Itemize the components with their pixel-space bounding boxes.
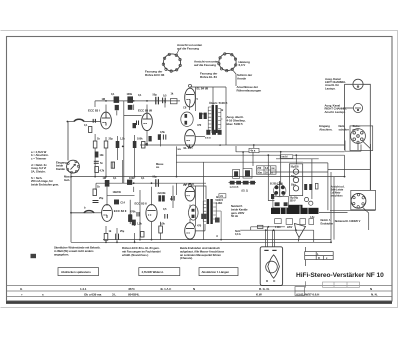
wire long vertical mid lower <box>203 162 205 239</box>
output tube V3 EL84 <box>185 84 196 107</box>
svg-text:4574: 4574 <box>128 287 135 291</box>
output tube V4 EL84 <box>185 130 196 148</box>
output connector J2 (right channel) <box>353 103 362 112</box>
svg-text:C14: C14 <box>120 201 125 204</box>
shielded blob lower <box>84 211 94 213</box>
label below socket B2 wire <box>237 85 262 92</box>
small caps mid lower <box>165 214 168 219</box>
svg-text:ws: ws <box>156 166 160 169</box>
wire mid rail y146 <box>140 144 345 146</box>
label box B text <box>257 167 274 174</box>
title block stamp box <box>323 282 360 287</box>
tube V1b ECC83 <box>102 205 113 222</box>
svg-text:0,5k: 0,5k <box>160 222 165 226</box>
svg-text:0,5: 0,5 <box>163 207 167 211</box>
label connector J2 <box>325 103 348 113</box>
label transformer T2 <box>216 199 224 205</box>
svg-text:N: N <box>193 287 195 291</box>
svg-text:LS: LS <box>220 195 223 198</box>
capacitor C1 on input wire <box>93 119 95 123</box>
resistor on supply wire <box>258 225 263 228</box>
resistor V2b left <box>129 215 132 221</box>
feedback labels <box>100 154 105 173</box>
svg-text:(Chassis).: (Chassis). <box>180 256 193 260</box>
resistor row R9b <box>142 142 146 149</box>
lower phase splitter oval <box>189 205 199 220</box>
label socket B2 below-left <box>200 72 218 79</box>
svg-text:Lautspr.: Lautspr. <box>325 86 336 90</box>
svg-text:6,3 V: 6,3 V <box>239 63 246 67</box>
svg-text:50µ/350: 50µ/350 <box>291 166 300 168</box>
tube V1 ECC83 <box>101 112 112 129</box>
LS label box lower <box>219 194 226 198</box>
capacitor lower rail <box>156 179 159 187</box>
output transformer T1 <box>208 105 222 133</box>
resistor R14 dark <box>199 113 202 119</box>
svg-text:Übertr. 5100:5: Übertr. 5100:5 <box>209 101 228 105</box>
tube socket view B2 (Röhrenfassung EL84) <box>218 53 237 72</box>
svg-text:G: G <box>20 287 23 291</box>
wire anode drop lower mid <box>133 187 135 192</box>
title block small rows <box>295 281 306 295</box>
svg-text:N. N.: N. N. <box>371 293 378 297</box>
svg-text:auf die Fassung: auf die Fassung <box>177 47 199 51</box>
junction dots upper <box>94 100 345 178</box>
label socket B2 below-right <box>237 73 253 80</box>
schematic frame <box>7 37 393 302</box>
svg-text:b: b <box>84 206 86 210</box>
capacitor under R8 <box>128 105 133 110</box>
part right of lower row <box>141 232 145 238</box>
wire socket D bottom <box>319 207 376 230</box>
svg-text:0,1: 0,1 <box>113 176 117 180</box>
label caps below <box>290 197 299 203</box>
svg-text:+: + <box>21 293 23 297</box>
wires resistor row to ground rail <box>95 131 176 177</box>
resistor R17 dark <box>212 130 216 135</box>
resistor lower rail 1 <box>105 180 110 187</box>
feedback chain capacitor <box>94 161 99 163</box>
svg-text:1k: 1k <box>109 229 112 233</box>
margin mark <box>31 254 37 258</box>
resistor row R5 <box>104 141 108 148</box>
wire input to V1b <box>71 174 102 213</box>
input socket with pins <box>67 160 80 173</box>
label under terminals <box>275 216 315 229</box>
label columns above DIN socket <box>319 124 360 131</box>
svg-text:100k: 100k <box>137 137 143 141</box>
label socket F <box>270 183 283 186</box>
svg-text:50m: 50m <box>257 171 262 174</box>
frame bottom thick bar <box>6 301 392 304</box>
svg-text:Anschl. Lautspr.: Anschl. Lautspr. <box>325 110 346 114</box>
wire lower output top <box>190 186 206 231</box>
svg-text:1M: 1M <box>102 97 105 101</box>
svg-text:1,2k: 1,2k <box>137 222 142 226</box>
wire input vertical <box>67 122 69 161</box>
small part mid <box>111 162 114 168</box>
phase splitter oval <box>181 112 193 126</box>
label box B table <box>257 166 277 174</box>
svg-text:Abschirm.: Abschirm. <box>319 127 332 131</box>
wire V2 anode <box>146 105 148 114</box>
small parts left column <box>304 183 318 205</box>
svg-text:ECC 83 II: ECC 83 II <box>135 202 147 206</box>
mains socket D <box>351 193 366 208</box>
title block row line 2 <box>7 290 393 292</box>
component value labels upper channel <box>97 92 224 152</box>
wire V4 to transformer <box>190 104 206 147</box>
coupling vertical lower <box>172 186 174 209</box>
svg-text:0,1: 0,1 <box>141 176 145 180</box>
svg-text:3 L: 3 L <box>112 293 116 297</box>
svg-text:954034L: 954034L <box>128 293 140 297</box>
svg-text:4,7k/1W Widerst.: 4,7k/1W Widerst. <box>142 270 164 274</box>
text Netzteil <box>231 204 248 218</box>
svg-text:2A, Gleichr.: 2A, Gleichr. <box>31 169 46 173</box>
wire rail left elbow <box>94 101 96 107</box>
output connector J1 (left channel) <box>353 79 363 89</box>
electrolytic cap bank box <box>289 164 302 196</box>
title block row texts <box>20 287 378 297</box>
output tube V3b EL84 <box>185 184 195 201</box>
wire V2b anode <box>151 187 153 206</box>
tube socket view B1 (Röhrenfassung ECC83) <box>162 53 181 72</box>
resistor R18 dark <box>218 130 222 135</box>
svg-text:1,2k: 1,2k <box>120 137 125 141</box>
capacitor above V1b <box>114 200 119 205</box>
svg-text:4L 1 A C: 4L 1 A C <box>160 287 172 291</box>
wire rail y151.8 <box>236 151 345 153</box>
svg-text:4-16Ω: 4-16Ω <box>216 202 223 205</box>
svg-text:50µ+: 50µ+ <box>291 176 297 178</box>
svg-text:c = Trimmer: c = Trimmer <box>31 156 47 160</box>
svg-text:ECC 83 II: ECC 83 II <box>114 209 127 213</box>
svg-text:beide Endstufen gem.: beide Endstufen gem. <box>31 182 59 186</box>
note text bottom left <box>54 246 101 257</box>
wires lower resistor rows <box>106 160 177 242</box>
wires supply verticals <box>236 146 296 201</box>
svg-text:4.543,4W37 6.6.H: 4.543,4W37 6.6.H <box>296 293 319 297</box>
capacitor lower grid <box>93 201 99 203</box>
svg-text:Kanäle: Kanäle <box>56 167 65 171</box>
svg-text:(Gl. 1): (Gl. 1) <box>242 189 249 192</box>
svg-text:Geh.: Geh. <box>64 178 70 182</box>
wire top rail <box>95 100 180 102</box>
wire lower top rail <box>96 182 206 184</box>
capacitor lower row <box>116 234 119 240</box>
svg-text:ECC 83 I: ECC 83 I <box>88 109 100 113</box>
svg-text:1k: 1k <box>171 92 174 96</box>
wires DIN to box <box>331 141 371 243</box>
shielded input wire blob <box>67 119 101 122</box>
svg-text:a a: a a <box>202 113 206 116</box>
caps in lower oval <box>192 209 195 212</box>
resistor R10 on rail <box>170 99 177 104</box>
text block socket D <box>331 185 345 198</box>
svg-text:10k: 10k <box>100 154 105 157</box>
resistor R8 on rail <box>127 96 133 103</box>
svg-text:1 2 3 4 5: 1 2 3 4 5 <box>230 186 239 189</box>
terminal sub boxes <box>275 219 314 225</box>
svg-text:0,5: 0,5 <box>163 94 167 98</box>
svg-text:50µ+: 50µ+ <box>291 184 297 186</box>
label under rectifier row <box>230 186 249 192</box>
resistor lower row 3 <box>159 226 163 233</box>
coupling cap C6 <box>163 98 166 104</box>
svg-text:25µ: 25µ <box>99 196 104 200</box>
svg-text:erhältl. (Noval-Fass.): erhältl. (Noval-Fass.) <box>122 253 148 257</box>
svg-text:350 V: 350 V <box>290 200 296 203</box>
rectifier unit dark blocks <box>233 169 252 179</box>
text right of bar <box>321 218 334 225</box>
tube V2b ECC83 <box>146 205 157 222</box>
svg-text:250: 250 <box>257 167 262 170</box>
label left of speaker wires <box>235 230 241 236</box>
svg-text:0,1: 0,1 <box>138 93 142 97</box>
cathode cap V2 <box>163 135 165 140</box>
label connector J1 <box>325 77 346 91</box>
svg-text:anschluss: anschluss <box>331 194 344 198</box>
capacitor C7 in oval <box>185 114 188 118</box>
title block row line 3 <box>7 295 393 297</box>
svg-text:ws: ws <box>178 148 182 151</box>
svg-text:5: 5 <box>197 97 199 101</box>
leader line from socket B1 to label <box>177 50 180 55</box>
wire supply horizontals <box>240 227 314 243</box>
note block 1 <box>122 246 161 257</box>
wire anode drop V1b <box>106 187 108 206</box>
svg-text:rt: rt <box>219 143 221 147</box>
svg-text:R: R <box>318 257 320 260</box>
resistor lower row 1 <box>104 233 108 240</box>
svg-text:2x100k: 2x100k <box>158 192 167 195</box>
resistor lower rail 2 <box>127 180 132 185</box>
capacitor V2b <box>137 212 139 217</box>
rectifier terminal row <box>229 181 257 185</box>
note block 2 <box>180 246 224 260</box>
resistor under V2 <box>149 136 152 141</box>
svg-text:0,3 A: 0,3 A <box>235 233 241 236</box>
label input socket right <box>56 160 67 170</box>
capacitor C5 on rail <box>156 97 159 105</box>
feedback chain resistor 2 <box>95 167 99 173</box>
wire V2b left rail <box>107 195 135 197</box>
svg-text:1k: 1k <box>97 137 100 141</box>
output transformer T2 <box>203 199 221 240</box>
spec table marks <box>317 253 328 260</box>
bottom box 1 <box>58 268 99 276</box>
svg-text:Röhre ECC 83: Röhre ECC 83 <box>145 73 165 77</box>
resistor R16 dark <box>206 130 210 135</box>
svg-text:5n: 5n <box>100 162 103 165</box>
loudspeaker <box>260 247 282 286</box>
feedback chain resistor <box>95 152 99 158</box>
svg-text:470: 470 <box>197 123 202 127</box>
label box on rail 2 <box>280 155 293 159</box>
pilot lamp funnel <box>295 224 306 242</box>
wire rail left elbow lower <box>95 183 97 190</box>
tube V2 ECC83 <box>142 113 153 130</box>
svg-text:ECC 83 I/II: ECC 83 I/II <box>138 109 152 113</box>
svg-text:25µ: 25µ <box>109 137 114 141</box>
wires right rails <box>270 155 370 210</box>
wire lower ground rails <box>71 213 331 243</box>
svg-text:50 Hz: 50 Hz <box>231 214 239 218</box>
resistor R6 <box>133 123 137 128</box>
legend text block <box>31 150 59 186</box>
resistor row R4 <box>93 141 97 148</box>
junction dots supply <box>265 226 297 231</box>
svg-text:Netzanschl. 110/220 V: Netzanschl. 110/220 V <box>335 219 361 223</box>
wire anode drop V1 <box>105 105 107 113</box>
svg-text:0,5k: 0,5k <box>160 130 165 134</box>
label socket B1 top <box>177 43 202 50</box>
anode resistors V2b dark <box>158 195 161 201</box>
svg-text:10k/1W: 10k/1W <box>113 191 122 194</box>
color tag left of T2 <box>201 214 206 219</box>
box around DIN socket J3 <box>350 126 373 151</box>
svg-text:sw bl: sw bl <box>281 156 287 159</box>
svg-text:K.W: K.W <box>256 293 262 297</box>
svg-text:B 250 C100: B 250 C100 <box>270 183 283 186</box>
resistor R15 dark <box>204 113 207 119</box>
spec table <box>305 252 334 260</box>
connector bus wire <box>345 84 371 190</box>
svg-text:rt: rt <box>216 234 218 238</box>
bottom box 3 <box>199 268 238 276</box>
capacitor C7b in oval <box>185 121 188 125</box>
svg-text:Abstützton f. Längen: Abstützton f. Längen <box>202 270 230 274</box>
label socket B2 right <box>239 60 250 67</box>
svg-text:50µ: 50µ <box>153 175 158 179</box>
capacitor under R3 <box>115 105 119 110</box>
output tube V4b EL84 <box>185 223 196 239</box>
resistor lower grid <box>93 189 96 196</box>
resistor left of socket F <box>271 194 274 199</box>
label box on rail <box>249 145 259 153</box>
svg-text:470k: 470k <box>130 210 136 214</box>
svg-text:1.4.1: 1.4.1 <box>80 287 87 291</box>
resistor row R7 <box>116 141 120 148</box>
svg-text:C8: C8 <box>183 106 187 110</box>
svg-text:220V: 220V <box>287 226 293 229</box>
svg-text:1k: 1k <box>97 185 100 189</box>
text note loudspeaker <box>227 115 246 126</box>
svg-text:2A: 2A <box>265 171 268 174</box>
component value labels lower channel <box>84 175 219 239</box>
wire anode drop mid <box>133 105 135 111</box>
wire from socket B2 down <box>233 70 237 86</box>
wire coupling to V2 grid <box>117 101 142 183</box>
svg-text:Ob u 639 ma: Ob u 639 ma <box>84 293 102 297</box>
wires to speaker <box>266 227 275 247</box>
svg-text:100k: 100k <box>127 92 133 96</box>
svg-text:25µ: 25µ <box>120 229 125 233</box>
svg-text:auf die Fassung: auf die Fassung <box>194 63 216 67</box>
resistor row R9 <box>133 141 137 148</box>
svg-text:4,7k: 4,7k <box>100 170 105 173</box>
capacitor C4 <box>137 121 139 126</box>
resistor lower row 2 <box>132 220 136 226</box>
DIN input socket J3 <box>351 129 366 144</box>
rectifier socket F <box>273 181 289 208</box>
coupling caps lower <box>172 196 175 201</box>
svg-text:N: N <box>370 287 372 291</box>
resistor R1 grid <box>84 124 92 133</box>
svg-text:Röhrenfassungen: Röhrenfassungen <box>237 88 262 92</box>
wire right of cap box <box>311 159 313 199</box>
svg-text:0,1: 0,1 <box>111 92 115 96</box>
svg-text:angegeben.: angegeben. <box>54 252 69 256</box>
svg-text:50µ: 50µ <box>153 93 158 97</box>
svg-text:Abdrücken spätestens: Abdrücken spätestens <box>61 270 91 274</box>
svg-text:Endstufen: Endstufen <box>321 221 334 225</box>
svg-text:bl: bl <box>221 108 224 112</box>
svg-text:HiFi-Stereo-Verstärker NF 10: HiFi-Stereo-Verstärker NF 10 <box>296 272 384 279</box>
bottom box 2 <box>139 268 180 276</box>
wire coupling drop <box>164 101 166 108</box>
wire output top <box>190 87 226 145</box>
junction dots lower <box>70 182 332 243</box>
svg-text:rung: rung <box>353 127 359 131</box>
svg-text:Röhre EL 84: Röhre EL 84 <box>200 75 217 79</box>
svg-text:sw: sw <box>271 167 274 170</box>
box around socket D <box>351 190 376 209</box>
labels between caps <box>291 176 297 186</box>
svg-text:x: x <box>42 293 44 297</box>
svg-text:Anode: Anode <box>237 76 246 80</box>
svg-text:R. G. N.: R. G. N. <box>259 287 270 291</box>
wire rail y155 <box>176 154 300 156</box>
title block row line 1 <box>7 285 393 287</box>
svg-text:bl: bl <box>216 195 219 199</box>
terminal strip dark bar <box>271 205 319 214</box>
wire ground rail upper <box>71 176 345 178</box>
svg-text:470: 470 <box>197 224 202 228</box>
svg-text:über. 5100:5: über. 5100:5 <box>227 122 243 126</box>
label socket B1 bottom-left <box>145 69 165 76</box>
svg-text:0,1: 0,1 <box>84 124 88 127</box>
resistor R3 on rail <box>114 96 120 103</box>
wire to spec table <box>305 247 307 266</box>
electrolytic capacitors <box>293 169 298 191</box>
text below socket D <box>335 219 361 223</box>
wire rail y163 <box>176 161 303 163</box>
label socket B2 left <box>194 60 219 67</box>
svg-text:a a a: a a a <box>205 137 211 140</box>
ground tag below socket <box>64 175 73 182</box>
svg-text:4,5x: 4,5x <box>310 216 315 219</box>
grid resistor V2b <box>129 200 132 224</box>
color tag right of T2 <box>215 218 220 223</box>
cathode parts V2 <box>158 134 161 140</box>
